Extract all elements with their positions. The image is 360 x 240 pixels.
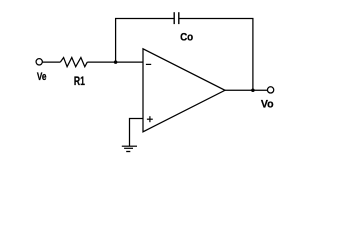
- op-amp U1 triangle: [143, 49, 225, 132]
- wire noninverting input to ground: [130, 119, 144, 147]
- output terminal Vo: [267, 87, 273, 93]
- svg-text:Ve: Ve: [37, 71, 47, 83]
- resistor R1: [60, 58, 87, 67]
- wire feedback top right and right leg: [179, 19, 253, 91]
- svg-text:R1: R1: [74, 74, 85, 88]
- svg-text:Vo: Vo: [261, 98, 274, 110]
- node A junction dot: [114, 60, 118, 64]
- input terminal Ve: [36, 59, 42, 65]
- ground: [122, 146, 137, 151]
- op-amp inverting pin mark -: [146, 63, 151, 65]
- wire output: [225, 89, 267, 91]
- svg-text:Co: Co: [180, 31, 193, 43]
- wire input: [42, 61, 60, 63]
- wire feedback left leg: [116, 19, 175, 63]
- op-amp noninverting pin mark +: [147, 116, 153, 122]
- node B output junction dot: [251, 89, 255, 93]
- capacitor Co: [174, 12, 179, 24]
- wire resistor to op-amp inverting input: [87, 61, 143, 63]
